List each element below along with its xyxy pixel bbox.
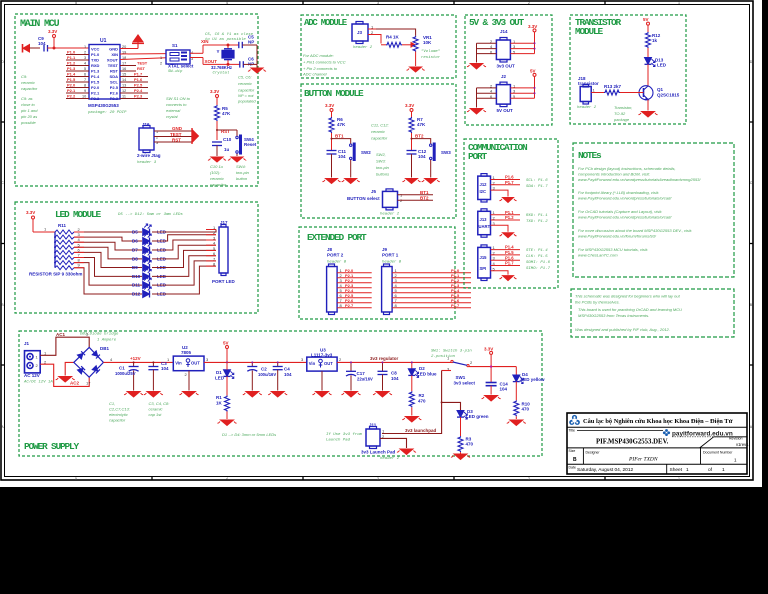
svg-text:package: package	[613, 117, 630, 122]
svg-text:C17: C17	[357, 371, 366, 376]
transistor ground	[647, 100, 649, 111]
svg-text:P1.7: P1.7	[134, 72, 143, 77]
regulator U2 7805	[167, 345, 209, 397]
connector J9 PORT1	[382, 247, 471, 315]
svg-text:14: 14	[122, 78, 126, 82]
svg-text:PORT: PORT	[468, 151, 488, 162]
svg-text:3.3V: 3.3V	[26, 210, 35, 215]
svg-text:P1.7: P1.7	[451, 303, 460, 308]
svg-text:BT1: BT1	[420, 190, 429, 195]
svg-text:47K: 47K	[417, 122, 426, 127]
svg-text:RXD: P1.1: RXD: P1.1	[526, 214, 548, 218]
svg-text:PORT LED: PORT LED	[212, 279, 236, 284]
svg-text:1k: 1k	[652, 38, 658, 43]
svg-text:BUTTON select: BUTTON select	[347, 196, 380, 201]
svg-text:Reset: Reset	[244, 142, 257, 147]
svg-text:P1.4: P1.4	[91, 74, 100, 79]
svg-text:P2.0: P2.0	[67, 83, 76, 88]
svg-text:1: 1	[167, 357, 170, 362]
LED D11	[143, 277, 152, 289]
LED D8	[143, 251, 152, 263]
svg-text:For ADC module:: For ADC module:	[303, 53, 334, 58]
svg-text:header 2: header 2	[380, 212, 400, 217]
svg-text:C4: C4	[284, 367, 290, 372]
svg-text:P1.4: P1.4	[67, 72, 76, 77]
connector J17	[212, 220, 236, 284]
svg-text:3.3V: 3.3V	[48, 29, 57, 34]
svg-text:1u: 1u	[224, 147, 230, 152]
module box notes2	[571, 289, 734, 337]
svg-text:P1.6: P1.6	[505, 255, 514, 260]
capacitor C1 electrolytic	[115, 361, 143, 397]
ground AC2	[56, 377, 75, 383]
svg-text:XTAL select: XTAL select	[168, 64, 194, 69]
svg-text:of: of	[708, 467, 713, 473]
svg-text:D6: D6	[132, 239, 138, 244]
svg-text:104: 104	[161, 366, 169, 371]
svg-text:For OrCAD tutorials (Capture a: For OrCAD tutorials (Capture and Layout)…	[578, 209, 662, 214]
svg-text:1 Ampere: 1 Ampere	[97, 338, 117, 343]
svg-text:5: 5	[75, 1, 77, 5]
svg-text:Q1: Q1	[657, 87, 664, 92]
svg-text:header 2: header 2	[380, 456, 400, 461]
GND pin to gnd-arrow	[120, 35, 144, 49]
svg-text:ceramic: ceramic	[149, 407, 163, 412]
J3 wires	[368, 29, 416, 44]
svg-text:crystal: crystal	[166, 114, 178, 119]
svg-text:P1.3: P1.3	[67, 66, 76, 71]
svg-text:2-position: 2-position	[431, 354, 456, 359]
button SW3	[412, 139, 431, 178]
LED D6	[143, 233, 152, 245]
svg-text:C5, C6 & Y1 as close: C5, C6 & Y1 as close	[205, 32, 254, 37]
PIF logo	[569, 415, 580, 425]
svg-text:XOUT: XOUT	[107, 58, 119, 63]
svg-text:3v3 select: 3v3 select	[454, 381, 476, 386]
svg-text:EXTENDED PORT: EXTENDED PORT	[307, 232, 367, 243]
svg-text:If Use 3v3 from: If Use 3v3 from	[326, 432, 363, 437]
svg-text:+12V: +12V	[130, 356, 141, 361]
module box BUTTON MODULE	[301, 84, 456, 218]
svg-text:J9: J9	[382, 247, 388, 252]
svg-text:1: 1	[678, 1, 680, 5]
button SW2	[332, 139, 351, 178]
svg-text:1: 1	[678, 477, 680, 481]
VR1 ground	[415, 52, 417, 67]
svg-text:PIF.MSP430G2553.DEV.: PIF.MSP430G2553.DEV.	[596, 439, 669, 446]
svg-text:1: 1	[593, 88, 596, 93]
svg-text:two-pin: two-pin	[236, 170, 250, 175]
svg-text:13: 13	[122, 84, 126, 88]
svg-text:DB1: DB1	[100, 346, 109, 351]
module box ADC MODULE	[301, 15, 456, 78]
svg-text:C3, C4, C8:: C3, C4, C8:	[149, 401, 170, 406]
power 3.3V led	[26, 210, 55, 232]
svg-text:SDA: SDA	[110, 74, 119, 79]
svg-text:C1,: C1,	[109, 401, 115, 406]
J16 wires	[154, 131, 192, 142]
svg-text:J15: J15	[480, 255, 488, 260]
svg-text:1000u/25V: 1000u/25V	[115, 371, 136, 376]
svg-text:SW1: SW1	[456, 375, 466, 380]
svg-text:3: 3	[377, 477, 379, 481]
svg-text:www.PayItForward.edu.vn/forum/: www.PayItForward.edu.vn/forum/forums/93/	[578, 234, 657, 239]
svg-text:P2.6: P2.6	[110, 91, 119, 96]
svg-text:C8: C8	[391, 371, 397, 376]
svg-text:CLK: P1.5: CLK: P1.5	[526, 255, 548, 259]
svg-text:104: 104	[418, 154, 426, 159]
svg-text:header 2: header 2	[577, 105, 597, 110]
svg-text:A: A	[1, 425, 4, 429]
svg-text:buttons: buttons	[376, 172, 389, 177]
svg-text:connects to: connects to	[166, 102, 187, 107]
svg-text:104: 104	[38, 41, 46, 46]
svg-text:populated: populated	[237, 99, 256, 104]
svg-text:two-pin: two-pin	[376, 165, 390, 170]
svg-text:Y: Y	[217, 49, 220, 54]
svg-text:R11: R11	[58, 223, 67, 228]
led weave right wires	[152, 230, 216, 295]
page border inner	[5, 5, 750, 477]
capacitor C12	[407, 151, 417, 155]
svg-text:3.3V: 3.3V	[405, 103, 414, 108]
svg-text:4: 4	[84, 62, 86, 66]
svg-text:D7: D7	[132, 248, 138, 253]
svg-text:BUTTON MODULE: BUTTON MODULE	[304, 88, 364, 99]
svg-text:to U1 as possible: to U1 as possible	[205, 37, 246, 42]
connector J13 UART	[478, 209, 548, 238]
svg-text:RST: RST	[137, 66, 146, 71]
capacitor C4	[268, 361, 292, 397]
svg-text:D5 --> D12: 5mm or 3mm LEDs: D5 --> D12: 5mm or 3mm LEDs	[118, 212, 183, 217]
svg-text:8: 8	[340, 303, 343, 308]
svg-text:C10 1u: C10 1u	[210, 164, 224, 169]
svg-text:electrolytic: electrolytic	[109, 412, 128, 417]
svg-text:Saturday, August 04, 2012: Saturday, August 04, 2012	[577, 467, 634, 473]
svg-text:TEST: TEST	[137, 61, 148, 66]
svg-text:J2: J2	[501, 74, 507, 79]
resistor R12	[646, 32, 651, 48]
svg-text:D10: D10	[132, 274, 141, 279]
svg-text:P1.0: P1.0	[91, 52, 100, 57]
svg-text:D2: D2	[419, 366, 425, 371]
svg-text:P1.6: P1.6	[134, 77, 143, 82]
svg-text:possible: possible	[20, 120, 36, 125]
wiper wire to VR1	[402, 43, 415, 47]
svg-text:components introduction and BO: components introduction and BOM, visit:	[578, 172, 650, 177]
svg-text:TO-92: TO-92	[614, 111, 626, 116]
svg-text:SIMO: P1.7: SIMO: P1.7	[526, 267, 551, 271]
svg-text:2: 2	[528, 477, 530, 481]
resistor R1	[225, 396, 230, 412]
green cap notes	[109, 401, 276, 437]
svg-text:For MSP430G2553 MCU tutorials,: For MSP430G2553 MCU tutorials, visit:	[578, 247, 648, 252]
connector J14 3v3 OUT	[467, 24, 537, 69]
svg-text:This schematic was designed fo: This schematic was designed for beginner…	[575, 294, 681, 299]
green notes C5 C6	[237, 75, 256, 104]
svg-text:capacitor: capacitor	[21, 86, 38, 91]
LED D5	[143, 224, 152, 236]
svg-text:close to: close to	[21, 102, 36, 107]
svg-text:4: 4	[226, 477, 228, 481]
svg-text:LED: LED	[215, 376, 225, 381]
svg-text:For PCb design (layout) instru: For PCb design (layout) instructions, sc…	[578, 166, 676, 171]
svg-text:Sheet: Sheet	[670, 467, 683, 473]
svg-text:Date: Date	[569, 466, 576, 470]
zone ticks top	[1, 1, 753, 480]
svg-text:cap 1st: cap 1st	[149, 412, 163, 417]
svg-text:RST: RST	[110, 69, 119, 74]
svg-text:P1.0: P1.0	[67, 50, 76, 55]
svg-text:P1.2: P1.2	[505, 215, 514, 220]
svg-text:SW2,: SW2,	[376, 152, 386, 157]
svg-text:104: 104	[338, 154, 346, 159]
svg-text:9: 9	[84, 89, 86, 93]
svg-text:external: external	[166, 108, 180, 113]
svg-text:1: 1	[36, 354, 39, 359]
svg-text:Was designed and published by: Was designed and published by PIF club, …	[575, 327, 670, 332]
svg-text:P1.5: P1.5	[91, 80, 100, 85]
svg-text:NP = not: NP = not	[238, 93, 254, 98]
svg-text:1: 1	[84, 45, 86, 49]
svg-text:ADC channel: ADC channel	[302, 72, 327, 77]
green notes C9	[20, 74, 38, 125]
svg-text:1: 1	[160, 56, 162, 60]
svg-text:470: 470	[522, 407, 530, 412]
svg-text:3.3V: 3.3V	[210, 89, 219, 94]
svg-text:RXD: RXD	[91, 63, 100, 68]
svg-text:AC1: AC1	[56, 332, 65, 337]
club name row divider	[567, 426, 747, 428]
revision cell	[700, 437, 714, 448]
svg-text:AC2: AC2	[70, 381, 79, 386]
resistor R7	[409, 117, 414, 133]
svg-text:3v3 regulator: 3v3 regulator	[370, 356, 399, 361]
resistor R6	[329, 117, 334, 133]
page border outer	[1, 1, 753, 480]
svg-text:SDA: P1.7: SDA: P1.7	[526, 185, 548, 189]
svg-text:P2.1: P2.1	[67, 88, 76, 93]
svg-text:SCL: SCL	[110, 80, 119, 85]
connector J18	[577, 76, 604, 110]
svg-text:32.768KHz: 32.768KHz	[211, 65, 232, 70]
svg-text:S1: S1	[172, 43, 178, 48]
svg-text:P1.4: P1.4	[505, 245, 514, 250]
svg-text:6: 6	[84, 73, 86, 77]
svg-text:D5: D5	[132, 230, 138, 235]
svg-text:P2.1: P2.1	[91, 91, 100, 96]
svg-text:Document Number: Document Number	[703, 451, 733, 455]
svg-text:J14: J14	[500, 29, 508, 34]
svg-text:2-wire Jtag: 2-wire Jtag	[137, 153, 161, 158]
svg-text:TXD: TXD	[91, 58, 99, 63]
svg-text:BT2: BT2	[415, 134, 424, 139]
svg-text:7: 7	[84, 78, 86, 82]
svg-text:U1: U1	[100, 38, 107, 44]
svg-text:Transistor,: Transistor,	[614, 105, 632, 110]
svg-text:Q2SC1815: Q2SC1815	[657, 93, 680, 98]
svg-text:5V & 3V3 OUT: 5V & 3V3 OUT	[469, 17, 525, 28]
svg-text:GND: GND	[109, 47, 118, 52]
connector J8 PORT2	[327, 247, 372, 315]
svg-text:SW1: Switch 3-pin: SW1: Switch 3-pin	[431, 349, 472, 354]
power 3.3V	[48, 29, 57, 48]
svg-text:BT1: BT1	[335, 134, 344, 139]
svg-text:PORT 1: PORT 1	[382, 253, 399, 258]
module box COMMUNICATION PORT	[464, 139, 558, 288]
svg-text:3: 3	[377, 1, 379, 5]
rail 3v3	[337, 361, 451, 363]
svg-text:Vin: Vin	[309, 361, 316, 366]
svg-text:+ Pin 2 connects to: + Pin 2 connects to	[303, 66, 338, 71]
svg-text:B: B	[573, 457, 577, 463]
svg-text:P2.5: P2.5	[110, 85, 119, 90]
svg-text:R1: R1	[216, 395, 222, 400]
svg-text:10: 10	[82, 95, 86, 99]
svg-text:RST: RST	[172, 138, 181, 143]
svg-text:47K: 47K	[337, 122, 346, 127]
svg-text:D: D	[1, 60, 4, 64]
svg-text:C9:: C9:	[21, 74, 27, 79]
svg-text:SW-dip: SW-dip	[168, 69, 183, 74]
svg-text:LED yellow: LED yellow	[521, 377, 546, 382]
svg-text:P2.3: P2.3	[134, 94, 143, 99]
svg-text:P2.3: P2.3	[110, 96, 119, 101]
svg-text:100u/16V: 100u/16V	[258, 372, 276, 377]
connector J5	[347, 189, 433, 217]
svg-text:MODULE: MODULE	[575, 26, 604, 37]
svg-text:8: 8	[395, 303, 398, 308]
svg-text:470: 470	[418, 399, 426, 404]
right pin wires	[120, 54, 166, 60]
svg-text:P2.2: P2.2	[67, 94, 76, 99]
svg-text:3v3 Launch Pad: 3v3 Launch Pad	[361, 450, 396, 455]
svg-text:SW3:: SW3:	[376, 159, 386, 164]
svg-text:B: B	[1, 303, 4, 307]
module box POWER SUPPLY	[19, 331, 542, 456]
svg-text:BT2: BT2	[420, 196, 429, 201]
led weave left wires	[74, 232, 142, 294]
ground xtal	[248, 68, 266, 73]
svg-text:1: 1	[382, 429, 385, 434]
connector J2 5V OUT	[467, 69, 536, 115]
svg-text:Revision: Revision	[729, 437, 742, 441]
connector J15 SPI	[478, 245, 551, 281]
svg-text:header 2: header 2	[353, 45, 373, 50]
svg-text:ceramic: ceramic	[210, 176, 224, 181]
svg-text:the PCBs by themselves.: the PCBs by themselves.	[575, 300, 620, 305]
svg-text:www.PayItForward.edu.vn/wordpr: www.PayItForward.edu.vn/wordpress/tutori…	[578, 177, 701, 182]
svg-text:TEST: TEST	[170, 132, 182, 137]
svg-text:2: 2	[470, 360, 473, 365]
button branch 1	[323, 103, 372, 184]
svg-text:C10: C10	[223, 137, 232, 142]
svg-text:resistor: resistor	[421, 55, 441, 60]
svg-text:C2: C2	[261, 367, 267, 372]
svg-text:1: 1	[722, 467, 725, 473]
off-page arrow right	[192, 128, 199, 144]
svg-text:OUT: OUT	[324, 361, 333, 366]
svg-text:I2C: I2C	[480, 189, 487, 194]
svg-text:POWER SUPPLY: POWER SUPPLY	[24, 441, 80, 452]
connector J16	[137, 122, 161, 165]
svg-text:RESISTOR SIP 9 330ohm: RESISTOR SIP 9 330ohm	[29, 272, 82, 277]
svg-text:C2,C7,C13:: C2,C7,C13:	[109, 407, 130, 412]
switch S1 XTAL select	[160, 43, 194, 74]
svg-text:PORT 2: PORT 2	[327, 253, 344, 258]
svg-text:3v3 launchpad: 3v3 launchpad	[405, 428, 437, 433]
module box TRANSISTOR MODULE	[570, 15, 686, 124]
LED D1	[224, 370, 234, 379]
svg-text:3.3V: 3.3V	[484, 347, 493, 352]
svg-text:www.ChesLanTC.com: www.ChesLanTC.com	[578, 253, 618, 258]
capacitor C11	[327, 151, 337, 155]
capacitor C10	[212, 142, 222, 146]
svg-text:3v3 OUT: 3v3 OUT	[497, 64, 516, 69]
svg-text:2: 2	[84, 51, 86, 55]
svg-text:Câu lạc bộ Nghiên cứu Khoa học: Câu lạc bộ Nghiên cứu Khoa học Khoa Điện…	[583, 418, 733, 425]
svg-text:J12: J12	[480, 182, 488, 187]
svg-text:"Volume": "Volume"	[421, 49, 441, 54]
svg-text:P2.5: P2.5	[134, 83, 143, 88]
green notes C10/SW	[210, 164, 250, 187]
svg-text:C: C	[1, 181, 4, 185]
svg-text:5: 5	[84, 67, 86, 71]
svg-text:D1 --> D4: 3mm or 5mm LEDs: D1 --> D4: 3mm or 5mm LEDs	[222, 432, 276, 437]
svg-text:17: 17	[86, 381, 91, 386]
svg-text:For more discussion about the: For more discussion about the board MSP4…	[578, 228, 692, 233]
green notes transistor	[613, 105, 632, 122]
svg-text:C9: as: C9: as	[21, 96, 33, 101]
capacitor C14	[482, 382, 509, 402]
svg-text:4: 4	[110, 357, 113, 362]
svg-text:SW3: SW3	[441, 150, 451, 155]
connector J12 I2C	[478, 174, 548, 203]
svg-text:header 3: header 3	[137, 160, 157, 165]
button branch 2	[403, 103, 452, 184]
svg-text:D11: D11	[132, 283, 141, 288]
svg-text:www.PayItForward.edu.vn/wordpr: www.PayItForward.edu.vn/wordpress/tutori…	[578, 215, 672, 220]
svg-text:P1.2: P1.2	[67, 61, 76, 66]
module box EXTENDED PORT	[299, 227, 455, 319]
svg-text:NOTEs: NOTEs	[578, 150, 602, 161]
svg-text:NP: NP	[248, 40, 254, 45]
svg-text:MSP430G2553 from Texas Instrum: MSP430G2553 from Texas Instruments.	[578, 313, 649, 318]
capacitor C3	[144, 361, 169, 397]
svg-text:DB1:Diode bridge: DB1:Diode bridge	[80, 332, 119, 337]
green notes S1	[166, 96, 191, 119]
svg-text:LED blue: LED blue	[417, 372, 437, 377]
svg-text:AC/DC 12V 1A: AC/DC 12V 1A	[23, 380, 53, 385]
svg-text:Designer: Designer	[586, 451, 601, 455]
svg-text:1: 1	[44, 227, 47, 232]
svg-text:D: D	[750, 60, 753, 64]
LED D9	[143, 260, 152, 272]
svg-text:104: 104	[391, 376, 399, 381]
LED D3	[442, 402, 489, 459]
svg-text:pin 1 and: pin 1 and	[20, 108, 38, 113]
svg-text:J1: J1	[24, 341, 30, 346]
svg-text:ceramic: ceramic	[238, 81, 252, 86]
svg-text:8: 8	[84, 84, 86, 88]
regulator U3 L1117	[301, 348, 342, 398]
LED D13	[645, 58, 656, 67]
bridge DB1 wires	[40, 337, 89, 355]
svg-text:Crystal: Crystal	[213, 71, 230, 76]
svg-text:capacitor: capacitor	[371, 136, 388, 141]
svg-text:104: 104	[284, 372, 292, 377]
svg-text:2: 2	[36, 363, 39, 368]
